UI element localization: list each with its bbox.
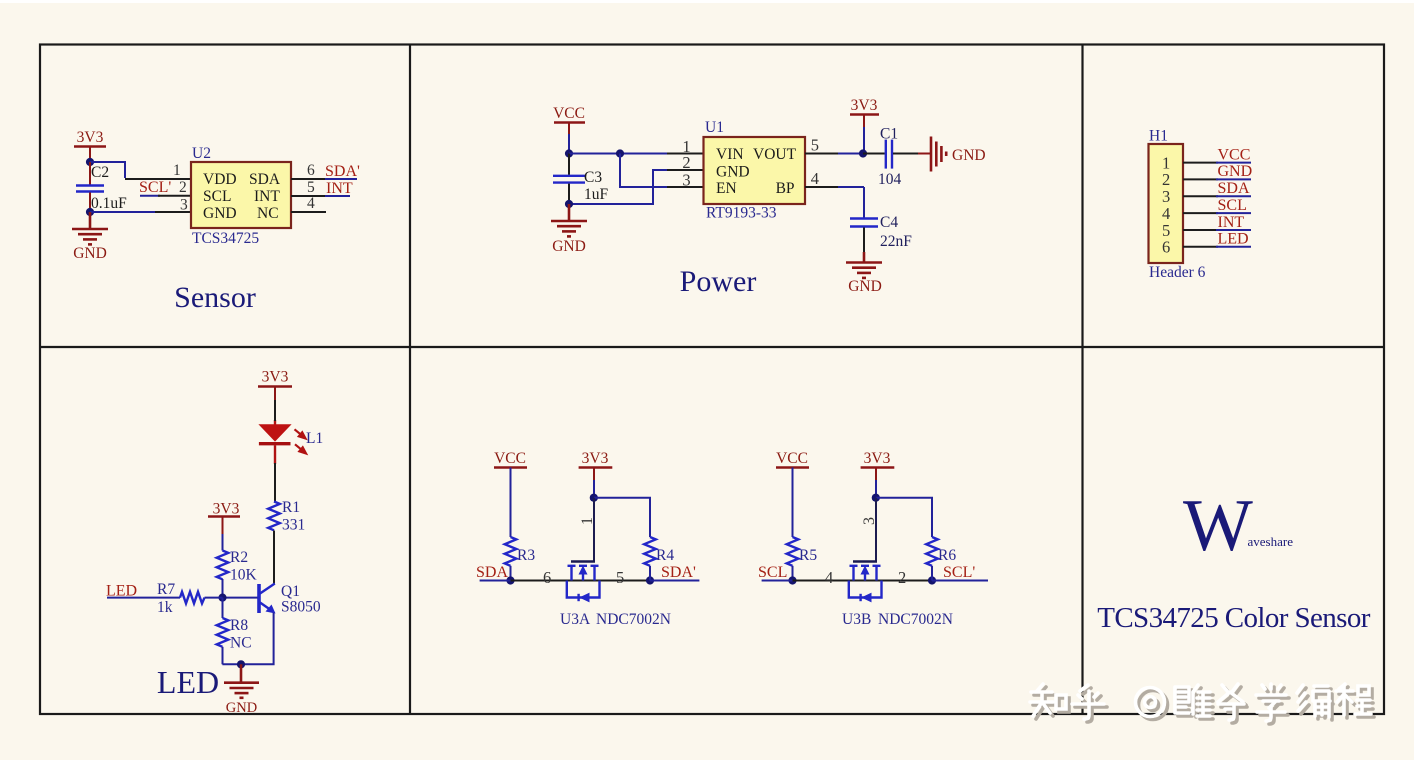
wire EN tie to VIN [620,154,668,188]
node junction C2/GND wire [86,208,94,216]
power port 3V3 (R2) [208,501,240,551]
svg-text:H1: H1 [1149,128,1168,145]
wire pin3 stub [155,211,191,213]
svg-text:VCC: VCC [494,450,526,467]
svg-text:R6: R6 [938,547,956,564]
svg-text:GND: GND [552,238,586,255]
svg-text:GND: GND [716,163,750,180]
svg-text:SDA': SDA' [325,163,360,180]
wire SCL rail to mosfet [793,580,933,582]
wire VCC to U1 pin1 [569,153,668,155]
svg-text:U3B: U3B [842,611,871,628]
capacitor C2 [76,162,127,212]
svg-text:SDA: SDA [249,171,281,188]
svg-text:1k: 1k [157,599,173,616]
pin 1 wire + net label VCC [1183,146,1251,163]
resistor R7 1k [157,581,223,616]
ground symbol (Q1) [224,664,259,698]
svg-text:1uF: 1uF [584,186,609,203]
connector H1 Header 6 [1149,128,1206,282]
wire SCL' rail + net label [932,564,988,581]
svg-text:C3: C3 [584,169,602,186]
svg-text:NC: NC [230,635,252,652]
svg-text:Sensor: Sensor [174,281,256,314]
svg-text:Power: Power [680,265,757,298]
svg-text:R8: R8 [230,617,248,634]
svg-text:W: W [1183,485,1253,567]
svg-text:INT: INT [326,180,353,197]
svg-text:U1: U1 [705,119,724,136]
svg-text:R2: R2 [230,549,248,566]
svg-text:2: 2 [898,568,906,587]
resistor R5 [787,537,818,581]
power port 3V3 (U3A) [579,450,613,498]
node junction 3V3/C1 [859,149,867,157]
pin 4 wire + net label SCL [1183,197,1251,214]
svg-text:4: 4 [307,195,315,212]
svg-text:L1: L1 [306,430,323,447]
node junction SDA/R3 [506,576,514,584]
svg-text:INT: INT [1218,214,1245,231]
svg-text:3V3: 3V3 [77,129,104,146]
wire pin1 stub [667,153,703,155]
power port 3V3 (sensor) [74,129,106,162]
ground symbol (C3) [551,204,587,236]
svg-text:C2: C2 [91,164,109,181]
svg-text:22nF: 22nF [880,233,912,250]
wire SDA' rail + net label [650,564,699,581]
voltage regulator U1 RT9193-33 [704,119,806,222]
svg-text:SCL': SCL' [139,179,171,196]
svg-text:3V3: 3V3 [864,450,891,467]
svg-text:aveshare: aveshare [1248,534,1294,549]
pin 4 wire NC [291,195,326,212]
svg-text:SDA': SDA' [661,564,696,581]
svg-text:4: 4 [811,169,819,188]
svg-text:BP: BP [776,180,795,197]
wire pin1 stub [125,178,191,180]
svg-text:TCS34725 Color Sensor: TCS34725 Color Sensor [1097,602,1371,634]
svg-text:6: 6 [543,568,551,587]
power port 3V3 (U3B) [861,450,895,498]
svg-text:C4: C4 [880,214,898,231]
svg-text:GND: GND [73,245,107,262]
svg-text:SDA: SDA [476,564,508,581]
mosfet U3B NDC7002N [842,562,953,629]
svg-text:5: 5 [616,568,624,587]
svg-text:INT: INT [254,188,280,205]
svg-text:3V3: 3V3 [213,501,240,518]
svg-text:SCL': SCL' [943,564,975,581]
svg-text:6: 6 [307,162,315,179]
svg-text:NDC7002N: NDC7002N [596,611,671,628]
node junction SCL'/R6 [928,576,936,584]
svg-text:104: 104 [878,171,902,188]
svg-text:2: 2 [179,179,187,196]
svg-text:EN: EN [716,180,737,197]
wire gate pin 1 vertical [593,498,595,562]
svg-text:3V3: 3V3 [582,450,609,467]
svg-text:S8050: S8050 [281,599,321,616]
svg-text:1: 1 [173,162,181,179]
wire U1 GND pin2 [569,170,668,204]
resistor R1 331 [268,499,305,534]
svg-text:4: 4 [825,568,833,587]
power port 3V3 (power out) [850,97,879,154]
wire stub to GND (C1) [918,153,930,155]
svg-text:RT9193-33: RT9193-33 [706,205,777,222]
svg-text:GND: GND [226,700,257,716]
resistor R3 [505,537,536,581]
ground symbol rotated (C1) [931,137,946,172]
svg-text:NC: NC [257,205,279,222]
node junction 3V3/gate/R6 [872,494,880,502]
svg-text:1: 1 [579,517,596,525]
power port VCC (U3A) [494,450,527,537]
ground symbol (sensor) [72,212,108,244]
svg-text:VCC: VCC [1218,146,1251,163]
svg-text:6: 6 [1162,238,1170,257]
net label LED with wire [106,583,180,600]
wire emitter down [222,613,273,665]
svg-text:5: 5 [811,136,819,155]
node junction SDA'/R4 [646,576,654,584]
ground symbol (C4) [846,252,882,278]
wire U2 pin3 to C2 [90,211,160,213]
svg-text:2: 2 [682,153,690,172]
svg-text:VDD: VDD [203,171,237,188]
pin 3 wire + net label SDA [1183,180,1251,197]
resistor R8 NC [217,598,252,665]
wire 3V3 to U2 pin1 [90,162,125,178]
power port VCC (power) [553,105,585,154]
node junction VIN/EN [616,149,624,157]
svg-text:10K: 10K [230,567,258,584]
wire base [223,597,258,599]
wire gate pin 3 vertical [875,498,877,562]
svg-text:R4: R4 [656,547,674,564]
svg-text:U2: U2 [192,145,211,162]
wire R1 to collector [273,531,275,584]
svg-text:TCS34725: TCS34725 [192,230,259,247]
resistor R2 10K [217,549,258,598]
svg-text:3V3: 3V3 [851,97,878,114]
svg-text:SDA: SDA [1218,180,1250,197]
svg-text:R1: R1 [282,499,300,516]
svg-text:3V3: 3V3 [262,369,289,386]
svg-text:GND: GND [1218,163,1253,180]
svg-text:VCC: VCC [776,450,808,467]
svg-text:Header 6: Header 6 [1149,264,1206,281]
node junction 3V3/gate/R4 [590,494,598,502]
svg-text:R7: R7 [157,581,175,598]
pin 5 wire + net label INT [1183,214,1251,231]
svg-text:VOUT: VOUT [753,146,797,163]
mosfet U3A NDC7002N [560,562,671,629]
svg-text:NDC7002N: NDC7002N [878,611,953,628]
svg-text:GND: GND [848,278,882,295]
svg-text:LED: LED [106,583,137,600]
svg-text:R3: R3 [517,547,535,564]
wire pin3 stub (EN) [667,186,703,188]
svg-text:R5: R5 [799,547,817,564]
svg-text:Q1: Q1 [281,583,300,600]
power port 3V3 (LED top) [258,369,292,403]
LED L1 [258,400,323,502]
pin 5 wire + net label INT [291,179,353,197]
svg-text:3: 3 [180,197,188,214]
power port VCC (U3B) [776,450,809,537]
pin 4 wire BP to C4 [805,169,864,218]
node junction VCC/C3 [565,149,573,157]
svg-text:SCL: SCL [203,188,231,205]
pin 2 wire + net label GND [1183,163,1252,180]
pin 5 wire VOUT [805,136,863,155]
wire SDA rail to mosfet [511,580,651,582]
svg-text:C1: C1 [880,126,898,143]
svg-text:LED: LED [1218,231,1249,248]
svg-text:5: 5 [307,179,315,196]
pin 6 wire + net label LED [1183,231,1251,248]
pin 6 wire + net label SDA' [291,162,360,180]
wire junction to R4 top [594,498,650,537]
svg-text:GND: GND [203,205,237,222]
wire pin2 stub [667,169,703,171]
transistor Q1 S8050 [259,583,321,616]
svg-text:SCL: SCL [1218,197,1247,214]
wire SDA rail left [480,580,511,582]
svg-text:VCC: VCC [553,105,585,122]
logo W aveshare [1183,485,1293,567]
svg-text:VIN: VIN [716,146,744,163]
svg-text:3: 3 [861,517,878,525]
wire junction to R6 top [876,498,932,537]
node junction 3V3/C2 [86,158,94,166]
resistor R4 [644,537,674,581]
node junction C3/GND [565,200,573,208]
svg-text:LED: LED [157,664,219,700]
svg-text:GND: GND [952,147,986,164]
svg-text:331: 331 [282,517,305,534]
node junction emitter/R8/GND [237,660,245,668]
svg-text:0.1uF: 0.1uF [91,195,127,212]
svg-text:3: 3 [682,171,690,190]
op-amp U2 chip body TCS34725 [191,145,291,247]
net label SCL' with wire [139,179,191,196]
wire SCL rail left [762,580,793,582]
node junction base [218,594,226,602]
capacitor C3 [553,154,609,205]
capacitor C1 104 [863,126,919,189]
capacitor C4 22nF [850,214,912,252]
svg-text:SCL: SCL [758,564,787,581]
svg-text:U3A: U3A [560,611,591,628]
node junction SCL/R5 [788,576,796,584]
resistor R6 [926,537,956,581]
